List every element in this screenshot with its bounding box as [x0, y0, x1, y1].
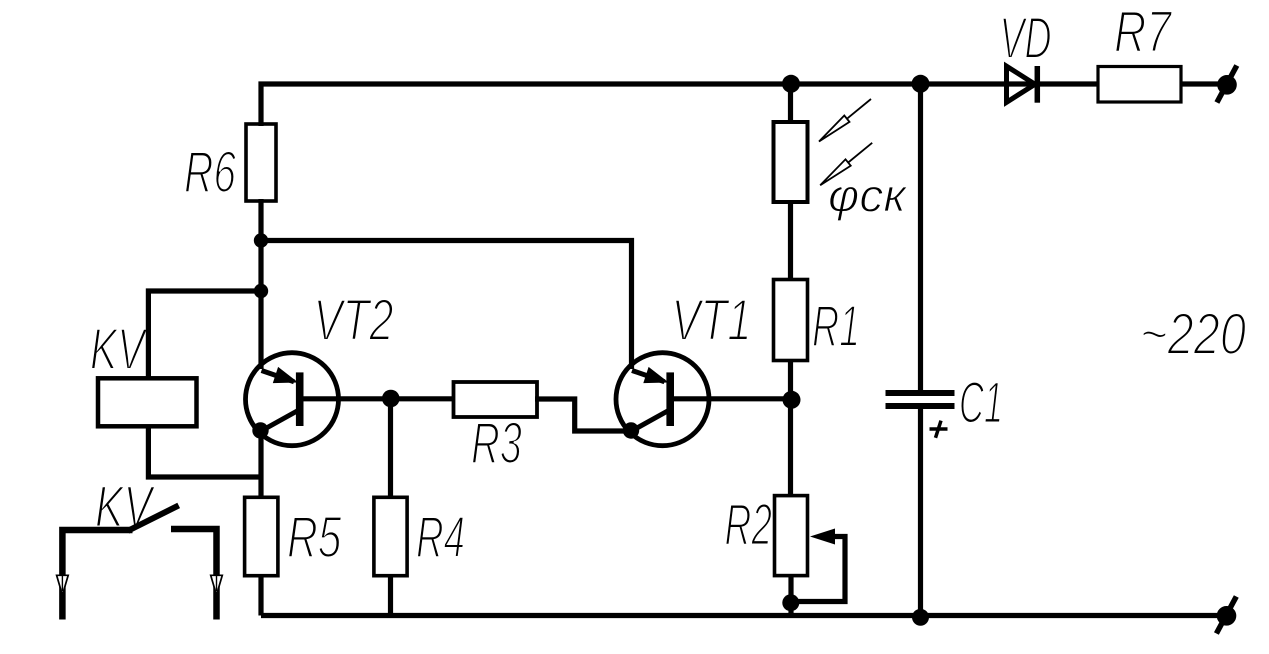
svg-text:~220: ~220: [1140, 302, 1246, 367]
svg-text:R2: R2: [725, 493, 773, 558]
svg-text:R7: R7: [1114, 0, 1173, 65]
svg-text:R6: R6: [184, 140, 237, 205]
svg-text:R4: R4: [416, 505, 465, 570]
svg-text:KV: KV: [90, 317, 148, 382]
svg-text:φск: φск: [828, 170, 908, 222]
svg-text:VT1: VT1: [672, 288, 752, 353]
svg-text:R3: R3: [471, 411, 522, 476]
svg-text:R5: R5: [287, 505, 342, 570]
svg-text:VT2: VT2: [314, 288, 394, 353]
svg-text:C1: C1: [959, 371, 1003, 436]
svg-text:R1: R1: [812, 294, 860, 359]
svg-text:VD: VD: [1000, 6, 1052, 71]
